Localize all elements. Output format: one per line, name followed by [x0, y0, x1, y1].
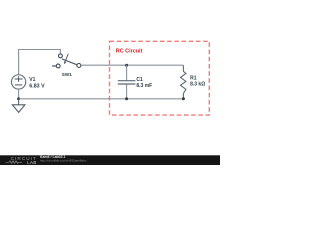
footer bar	[0, 155, 220, 165]
SW1 left throw stub wire	[52, 65, 56, 67]
SW1 top throw terminal circle	[59, 54, 63, 58]
svg-text:6.83 V: 6.83 V	[29, 84, 45, 90]
wire: top rail from SW1 to R1	[81, 64, 183, 66]
footer logo waveform	[6, 161, 23, 164]
switch SW1	[52, 54, 81, 68]
capacitor C1	[118, 65, 136, 99]
SW1 left throw terminal circle	[56, 64, 60, 68]
wire: V1 top to switch top throw	[19, 50, 61, 75]
wire: bottom rail	[19, 98, 184, 100]
SW1 toggle arrow	[65, 54, 68, 62]
node: bottom rail / R1 junction	[182, 97, 185, 100]
RC Circuit enclosure box (red dashed)	[110, 41, 210, 115]
svg-text:8.3 kΩ: 8.3 kΩ	[190, 81, 205, 87]
SW1 blade	[62, 59, 77, 65]
svg-text:RC Circuit: RC Circuit	[116, 48, 143, 54]
node: bottom rail / C1 junction	[125, 97, 128, 100]
svg-text:SW1: SW1	[62, 72, 72, 77]
resistor R1	[181, 65, 186, 99]
wire: V1 bottom lead	[18, 89, 20, 99]
SW1 common terminal circle	[77, 64, 81, 68]
svg-text:LAB: LAB	[27, 160, 37, 165]
svg-text:http://circuitlab.com/c4635aeb: http://circuitlab.com/c4635aeb8abc	[40, 158, 87, 162]
node: top rail / C1 junction	[125, 64, 128, 67]
voltage source V1	[11, 75, 25, 89]
node: V1/ground junction	[17, 97, 20, 100]
svg-text:V1: V1	[29, 77, 35, 83]
ground	[12, 99, 25, 113]
svg-text:8.3 mF: 8.3 mF	[136, 83, 152, 89]
